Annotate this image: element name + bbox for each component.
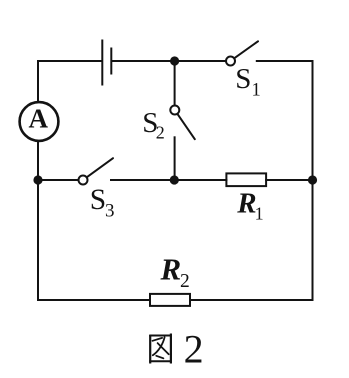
- right wire down: [312, 61, 314, 300]
- svg-text:3: 3: [105, 201, 115, 222]
- node junction middle-right: [308, 175, 317, 184]
- svg-text:A: A: [29, 103, 49, 133]
- battery long plate: [101, 40, 103, 86]
- switch S1 lever: [235, 41, 258, 58]
- svg-text:S: S: [235, 63, 251, 95]
- switch S2 circle: [170, 106, 179, 115]
- wire top-left to battery: [38, 60, 101, 62]
- ammeter circle: [20, 102, 59, 141]
- wire S2 branch lower: [174, 137, 176, 180]
- svg-text:2: 2: [184, 326, 204, 371]
- switch S3 circle: [79, 176, 88, 185]
- svg-text:2: 2: [180, 271, 190, 292]
- resistor R1 box: [226, 173, 266, 186]
- node junction middle-left: [33, 175, 42, 184]
- svg-text:1: 1: [252, 81, 261, 101]
- wire middle left to S3: [38, 179, 78, 181]
- switch S3 lever: [87, 158, 113, 177]
- wire S2 branch upper: [174, 61, 176, 105]
- svg-text:2: 2: [156, 123, 165, 143]
- node junction top (battery / S2 branch): [170, 56, 179, 65]
- battery short plate: [110, 48, 112, 75]
- resistor R2 box: [150, 294, 190, 306]
- node junction middle-center: [170, 175, 179, 184]
- wire battery to S1: [112, 60, 224, 62]
- wire S1 to top-right corner: [257, 60, 313, 62]
- svg-text:1: 1: [255, 204, 264, 224]
- wire S3 to middle junction: [111, 179, 226, 181]
- left wire ammeter to bottom: [37, 142, 39, 300]
- wire R2 to bottom-right corner: [190, 299, 313, 301]
- svg-text:R: R: [236, 188, 256, 220]
- switch S2 lever: [178, 114, 195, 139]
- svg-text:S: S: [90, 184, 106, 216]
- svg-text:R: R: [160, 252, 182, 287]
- wire R1 to right junction: [266, 179, 312, 181]
- left wire top to ammeter: [37, 61, 39, 101]
- switch S1 circle: [226, 57, 235, 66]
- caption glyph tu (figure) box: [149, 334, 172, 364]
- caption glyph tu inner strokes: [153, 337, 169, 358]
- bottom wire left to R2: [38, 299, 150, 301]
